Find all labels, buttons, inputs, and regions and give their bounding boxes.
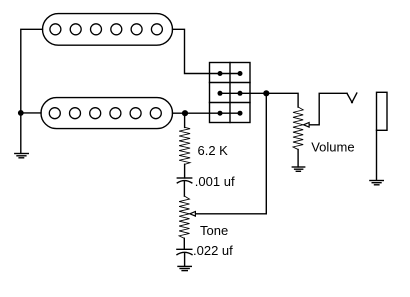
pickup P1 (neck, top)	[43, 14, 173, 46]
wire: pickup P1 right lead to switch row 1	[173, 29, 241, 73]
potentiometer R2 (tone) element	[179, 196, 189, 238]
ground GND2 (tone network)	[178, 266, 191, 270]
capacitor C1	[177, 178, 192, 183]
wire: tone wiper to node B riser	[196, 93, 267, 214]
resistor R1	[179, 127, 190, 164]
wire: volume wiper to output V	[309, 93, 347, 125]
svg-text:Tone: Tone	[200, 223, 228, 238]
ground GND4 (jack sleeve)	[370, 181, 383, 185]
svg-text:6.2 K: 6.2 K	[198, 143, 229, 158]
wire: resistor R1 to capacitor C1	[184, 164, 186, 178]
ground GND3 (volume pot)	[292, 167, 304, 171]
output jack J1	[377, 92, 388, 180]
svg-text:.022 uf: .022 uf	[193, 243, 233, 258]
potentiometer R3 wiper arrow	[304, 123, 310, 128]
wire: node C down to resistor R1	[184, 113, 186, 127]
wire: volume pot bottom to ground GND3	[297, 150, 299, 167]
capacitor C2	[177, 249, 192, 254]
output terminal V marker	[347, 93, 357, 103]
switch S1 (3x2 selector grid)	[210, 63, 251, 123]
node B: junction of switch output and tone wiper riser	[264, 91, 269, 96]
potentiometer R2 wiper arrow	[190, 212, 196, 217]
wire: pickup P1 left lead to ground bus, down left side	[21, 29, 43, 153]
svg-text:Volume: Volume	[311, 139, 354, 154]
switch S1 contact dots	[218, 71, 243, 116]
ground GND1 (left bus)	[15, 154, 28, 158]
wire: pickup P2 left lead	[21, 112, 41, 114]
node A: junction of ground bus and pickup P2 left lead	[19, 111, 23, 115]
pickup P2 (bridge, bottom)	[41, 98, 173, 129]
wire: tone pot to capacitor C2	[183, 238, 185, 249]
potentiometer R3 (volume) element	[293, 107, 303, 150]
wire: capacitor C2 to ground GND2	[184, 253, 186, 266]
svg-text:.001 uf: .001 uf	[195, 174, 235, 189]
wire: pickup P2 right lead through switch row 3	[173, 112, 241, 114]
wire: capacitor C1 to tone pot	[183, 181, 185, 196]
node C: junction of pickup P2 hot and tone network	[183, 111, 188, 116]
wire: switch row 2 output to volume pot top	[220, 93, 298, 107]
